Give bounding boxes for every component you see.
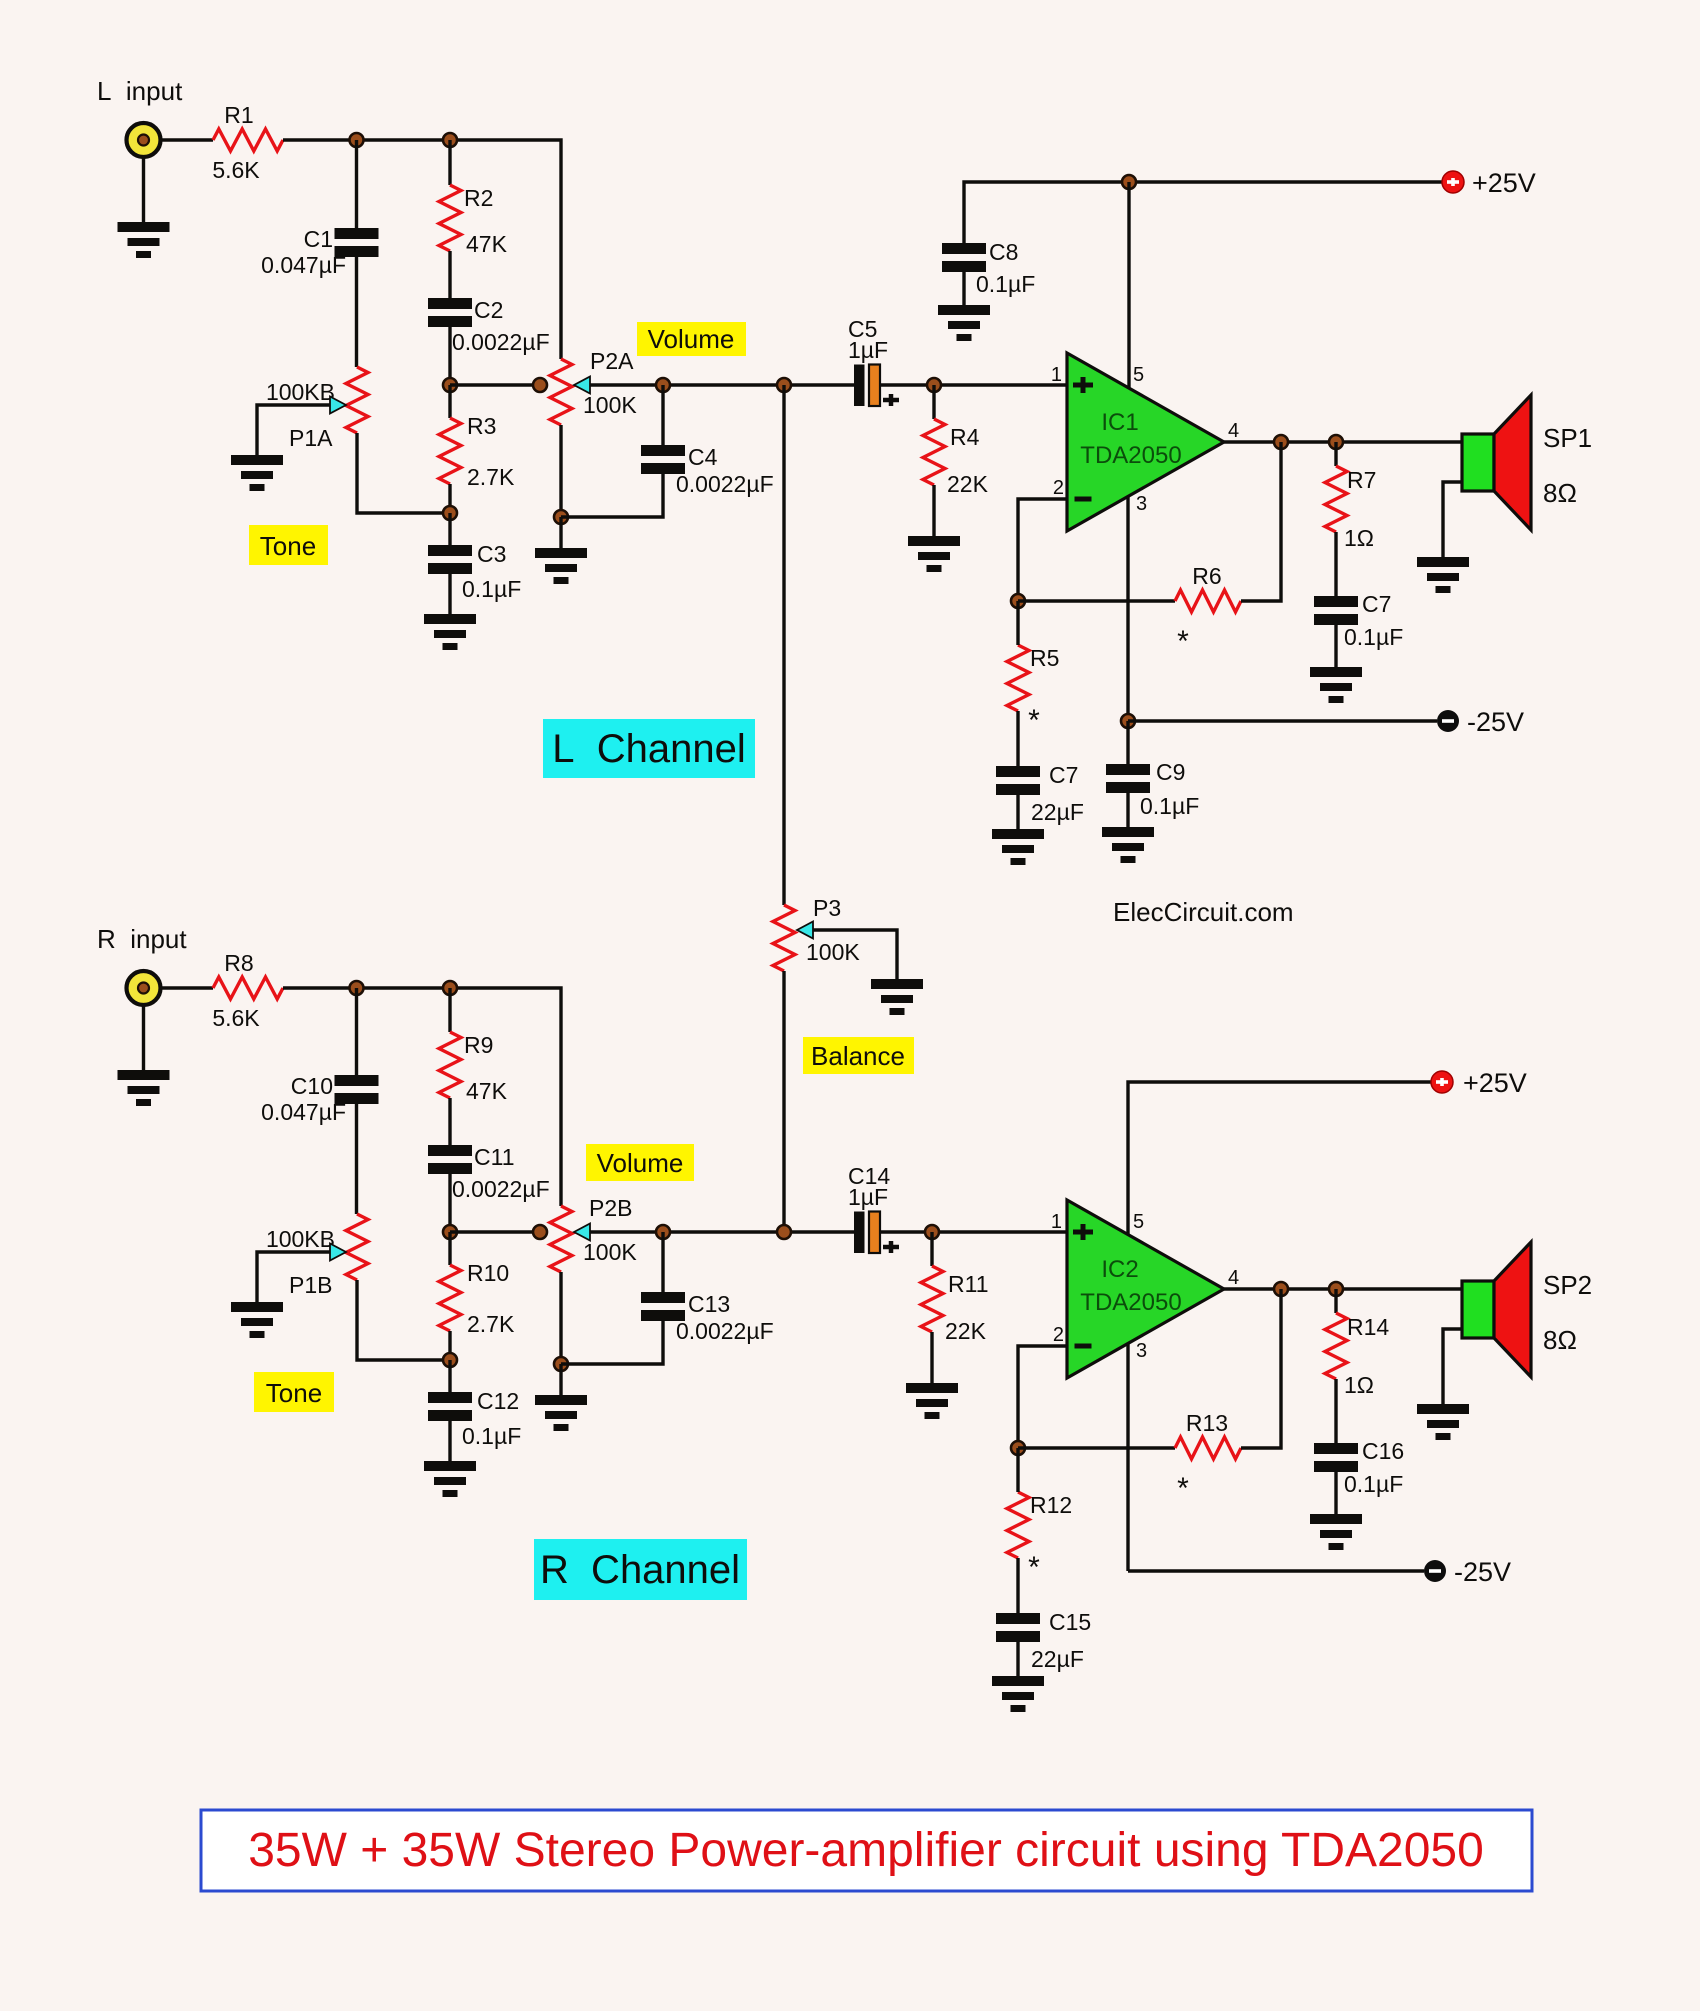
- wire junction to R2: [448, 140, 451, 185]
- node junction balance tap: [777, 378, 791, 392]
- node junction at P2B: [533, 1225, 547, 1239]
- svg-text:0.1µF: 0.1µF: [1344, 624, 1403, 650]
- svg-text:R8: R8: [224, 950, 253, 976]
- capacitor C14 electrolytic: [848, 1163, 899, 1253]
- svg-text:SP1: SP1: [1543, 423, 1592, 453]
- svg-text:3: 3: [1136, 1340, 1147, 1362]
- wire SP2 to ground: [1443, 1329, 1462, 1404]
- node junction on +25V rail: [1122, 175, 1136, 189]
- label Balance: [803, 1037, 914, 1074]
- wire +25V rail R: [1128, 1082, 1431, 1235]
- svg-text:TDA2050: TDA2050: [1080, 442, 1181, 469]
- svg-text:1: 1: [1051, 1211, 1062, 1233]
- ground below SP1: [1417, 557, 1469, 593]
- svg-text:R11: R11: [948, 1271, 989, 1297]
- potentiometer P1B: [266, 1214, 368, 1298]
- svg-text:100K: 100K: [806, 939, 860, 965]
- svg-text:2: 2: [1053, 1324, 1064, 1346]
- capacitor C13: [641, 1291, 774, 1344]
- svg-text:*: *: [1177, 625, 1189, 658]
- svg-text:100K: 100K: [583, 392, 637, 418]
- svg-text:SP2: SP2: [1543, 1270, 1592, 1300]
- capacitor C7 (0.1uF): [1314, 591, 1403, 650]
- wire IC2 output to speaker: [1224, 1287, 1462, 1290]
- wire node to R5: [1016, 601, 1019, 645]
- ground below P2B: [535, 1395, 587, 1431]
- wire pin2 node to R6: [1018, 599, 1175, 602]
- svg-text:22K: 22K: [947, 471, 989, 497]
- svg-text:2: 2: [1053, 477, 1064, 499]
- capacitor C16: [1314, 1438, 1404, 1497]
- wiper arrow P1A: [330, 397, 346, 414]
- op-amp IC2 TDA2050: [1051, 1200, 1239, 1378]
- speaker SP2: [1462, 1242, 1592, 1377]
- wire P3 wiper to ground: [813, 930, 897, 979]
- wire IC1 pin 3: [1126, 496, 1129, 721]
- node tone junction R: [443, 1353, 457, 1367]
- speaker SP1: [1462, 395, 1592, 530]
- svg-text:4: 4: [1228, 1267, 1239, 1289]
- node junction at C4: [656, 378, 670, 392]
- svg-text:Volume: Volume: [597, 1148, 684, 1178]
- resistor R7: [1325, 466, 1376, 551]
- wire junction to R14: [1334, 1289, 1337, 1313]
- resistor R9: [439, 1032, 508, 1104]
- wire P2B bottom to ground: [559, 1364, 562, 1395]
- svg-text:0.0022µF: 0.0022µF: [676, 471, 774, 497]
- svg-text:0.0022µF: 0.0022µF: [452, 1176, 550, 1202]
- potentiometer P2B: [550, 1195, 637, 1272]
- svg-text:*: *: [1028, 1551, 1040, 1584]
- potentiometer P3: [773, 895, 860, 971]
- node P2A bottom junction: [554, 510, 568, 524]
- svg-text:P3: P3: [813, 895, 841, 921]
- wire IC1 pin 2: [1018, 499, 1067, 601]
- svg-text:C10: C10: [291, 1073, 333, 1099]
- RCA jack J2 (R input): [127, 971, 161, 1005]
- wire C9 to ground: [1126, 793, 1129, 827]
- ground below C9: [1102, 827, 1154, 863]
- wire junction to C10: [355, 988, 358, 1075]
- resistor R13: [1175, 1410, 1241, 1505]
- wire P1B wiper to ground: [257, 1252, 330, 1302]
- svg-text:ElecCircuit.com: ElecCircuit.com: [1113, 897, 1294, 927]
- wire R11 to ground: [930, 1332, 933, 1383]
- svg-text:0.0022µF: 0.0022µF: [676, 1318, 774, 1344]
- wire +25V rail L: [964, 182, 1442, 243]
- ground below R11: [906, 1383, 958, 1419]
- wire node to R12: [1016, 1448, 1019, 1492]
- svg-text:R9: R9: [464, 1032, 493, 1058]
- wire P2A wiper to C5: [590, 383, 854, 386]
- capacitor C7 (22uF): [996, 762, 1084, 825]
- terminal +25V L: [1442, 168, 1536, 198]
- svg-text:C15: C15: [1049, 1609, 1091, 1635]
- svg-text:+25V: +25V: [1463, 1068, 1527, 1098]
- wire junction to R11: [930, 1232, 933, 1266]
- capacitor C2: [428, 297, 550, 355]
- svg-text:P1B: P1B: [289, 1272, 332, 1298]
- svg-text:R10: R10: [467, 1260, 509, 1286]
- resistor R2: [439, 185, 508, 257]
- wire jack to R8: [161, 986, 213, 989]
- wire jack to R1: [161, 138, 213, 141]
- svg-text:C13: C13: [688, 1291, 730, 1317]
- svg-text:35W + 35W Stereo Power-amplifi: 35W + 35W Stereo Power-amplifier circuit…: [248, 1824, 1484, 1877]
- svg-text:R5: R5: [1030, 645, 1059, 671]
- svg-text:Volume: Volume: [648, 324, 735, 354]
- wire C7 to ground: [1016, 795, 1019, 829]
- svg-text:C1: C1: [304, 226, 333, 252]
- svg-text:R13: R13: [1186, 1410, 1228, 1436]
- node junction at P2A: [533, 378, 547, 392]
- svg-text:1µF: 1µF: [848, 1184, 888, 1210]
- wire junction to C9: [1126, 721, 1129, 764]
- svg-text:C2: C2: [474, 297, 503, 323]
- svg-text:C12: C12: [477, 1388, 519, 1414]
- wire R7 to C7: [1334, 532, 1337, 596]
- svg-text:100KB: 100KB: [266, 1226, 335, 1252]
- node junction feedback tap: [1274, 435, 1288, 449]
- svg-text:5.6K: 5.6K: [212, 157, 260, 183]
- wire R4 to ground: [932, 485, 935, 536]
- wire tone node to C12: [448, 1360, 451, 1392]
- capacitor C15: [996, 1609, 1091, 1672]
- ground at P3 wiper: [871, 979, 923, 1015]
- svg-text:0.047µF: 0.047µF: [261, 1099, 346, 1125]
- wire R13 to output: [1241, 1289, 1281, 1448]
- node junction R13/R12: [1011, 1441, 1025, 1455]
- wire R2 to C2: [448, 251, 451, 298]
- ground below R4: [908, 536, 960, 572]
- wire junction to P2B: [450, 1230, 540, 1233]
- svg-text:C7: C7: [1049, 762, 1078, 788]
- capacitor C3: [428, 541, 521, 602]
- capacitor C10: [261, 1073, 378, 1125]
- wire R9 to C11: [448, 1098, 451, 1145]
- wire P2B wiper to C14: [590, 1230, 854, 1233]
- wire P1A bottom to tone node: [357, 433, 450, 513]
- wire tone node to C3: [448, 513, 451, 545]
- svg-text:47K: 47K: [466, 1078, 508, 1104]
- wire R12 to C15: [1016, 1558, 1019, 1613]
- wire C13 to P2B bottom junction: [561, 1321, 663, 1364]
- resistor R14: [1325, 1313, 1389, 1398]
- resistor R1: [212, 102, 283, 183]
- svg-text:C8: C8: [989, 239, 1018, 265]
- wire pin2 node to R13: [1018, 1446, 1175, 1449]
- ground below SP2: [1417, 1404, 1469, 1440]
- wire C4 to P2A bottom junction: [561, 474, 663, 517]
- ground below C8: [938, 305, 990, 341]
- node junction -25V rail L: [1121, 714, 1135, 728]
- wire -25V rail L: [1128, 719, 1437, 722]
- wire R3 to tone node: [448, 484, 451, 513]
- svg-text:Balance: Balance: [811, 1041, 905, 1071]
- wire P2B bottom: [559, 1272, 562, 1364]
- svg-text:C3: C3: [477, 541, 506, 567]
- wire C11 to junction: [448, 1174, 451, 1232]
- wire C8 to ground: [962, 272, 965, 305]
- wire SP1 to ground: [1443, 482, 1462, 557]
- wire junction to P2A: [450, 383, 540, 386]
- ground at P1A wiper: [231, 455, 283, 491]
- svg-text:1Ω: 1Ω: [1344, 1372, 1374, 1398]
- svg-text:C4: C4: [688, 444, 718, 470]
- node junction at R11: [925, 1225, 939, 1239]
- resistor R3: [439, 413, 515, 490]
- node junction at R4: [927, 378, 941, 392]
- label Tone L: [249, 525, 328, 565]
- node junction feedback tap R: [1274, 1282, 1288, 1296]
- wiper arrow P3: [797, 922, 813, 939]
- svg-text:8Ω: 8Ω: [1543, 1325, 1577, 1355]
- wire C16 to ground: [1334, 1472, 1337, 1514]
- label ElecCircuit.com: [1113, 897, 1294, 927]
- ground below C3: [424, 614, 476, 650]
- wire P1A wiper to ground: [257, 405, 330, 455]
- node junction at R9 top: [443, 981, 457, 995]
- wire R8 to P2B top: [283, 988, 561, 1206]
- wire jack J2 to ground: [142, 1005, 145, 1070]
- resistor R11: [921, 1266, 989, 1344]
- wire IC1 output to speaker: [1224, 440, 1462, 443]
- ground below C7 0.1uF: [1310, 667, 1362, 703]
- node junction at C13: [656, 1225, 670, 1239]
- wire R6 to output: [1241, 442, 1281, 601]
- svg-text:P1A: P1A: [289, 425, 333, 451]
- op-amp IC1 TDA2050: [1051, 353, 1239, 531]
- svg-text:4: 4: [1228, 420, 1239, 442]
- svg-text:R14: R14: [1347, 1314, 1389, 1340]
- svg-text:-25V: -25V: [1454, 1557, 1511, 1587]
- resistor R6: [1175, 563, 1241, 658]
- wire R14 to C16: [1334, 1379, 1337, 1443]
- svg-text:0.1µF: 0.1µF: [1344, 1471, 1403, 1497]
- capacitor C4: [641, 444, 774, 497]
- svg-text:5: 5: [1133, 364, 1144, 386]
- resistor R12: [1007, 1492, 1072, 1584]
- wire balance tap vertical: [782, 385, 785, 905]
- wire C1 to P1A: [355, 257, 358, 367]
- svg-text:Tone: Tone: [260, 531, 316, 561]
- wire pin 5 supply: [1127, 182, 1130, 388]
- svg-text:C7: C7: [1362, 591, 1391, 617]
- svg-text:100KB: 100KB: [266, 379, 335, 405]
- capacitor C9: [1106, 759, 1199, 819]
- node junction R10 top: [443, 1225, 457, 1239]
- svg-text:+25V: +25V: [1472, 168, 1536, 198]
- wire C12 to ground: [448, 1421, 451, 1461]
- wire junction to R4: [932, 385, 935, 419]
- wire C10 to P1B: [355, 1104, 358, 1214]
- label Volume L: [637, 322, 746, 356]
- wire IC2 pin 3: [1126, 1343, 1129, 1571]
- potentiometer P1A: [266, 367, 368, 451]
- svg-text:22µF: 22µF: [1031, 799, 1084, 825]
- label Volume R: [586, 1144, 694, 1181]
- ground below C15: [992, 1676, 1044, 1712]
- potentiometer P2A: [550, 348, 637, 425]
- svg-text:47K: 47K: [466, 231, 508, 257]
- wire R5 to C7: [1016, 711, 1019, 766]
- capacitor C12: [428, 1388, 521, 1449]
- wiper arrow P1B: [330, 1244, 346, 1261]
- svg-text:-25V: -25V: [1467, 707, 1524, 737]
- svg-text:P2B: P2B: [589, 1195, 632, 1221]
- node junction at R2 top: [443, 133, 457, 147]
- svg-text:C11: C11: [474, 1144, 515, 1170]
- svg-text:R2: R2: [464, 185, 493, 211]
- svg-text:2.7K: 2.7K: [467, 1311, 515, 1337]
- svg-text:R7: R7: [1347, 467, 1376, 493]
- wire junction to R7: [1334, 442, 1337, 466]
- wire P1B bottom to tone node: [357, 1280, 450, 1360]
- label R Channel: [534, 1539, 747, 1600]
- capacitor C11: [428, 1144, 550, 1202]
- svg-text:TDA2050: TDA2050: [1080, 1289, 1181, 1316]
- wire IC2 pin 2: [1018, 1346, 1067, 1448]
- title box: [201, 1810, 1532, 1891]
- svg-text:5.6K: 5.6K: [212, 1005, 260, 1031]
- wire junction to R9: [448, 988, 451, 1032]
- wire junction to R10: [448, 1232, 451, 1265]
- node R input label: [97, 924, 187, 954]
- terminal +25V R: [1431, 1068, 1527, 1098]
- svg-text:P2A: P2A: [590, 348, 634, 374]
- node junction at R7: [1329, 435, 1343, 449]
- ground below P2A: [535, 548, 587, 584]
- svg-text:0.1µF: 0.1µF: [462, 1423, 521, 1449]
- ground at P1B wiper: [231, 1302, 283, 1338]
- node junction balance bottom: [777, 1225, 791, 1239]
- node junction at R14: [1329, 1282, 1343, 1296]
- svg-text:*: *: [1177, 1472, 1189, 1505]
- wire junction to C1: [355, 140, 358, 228]
- wire junction to C4: [661, 385, 664, 445]
- svg-text:IC1: IC1: [1101, 409, 1138, 436]
- wire R1 to P2A top: [283, 140, 561, 359]
- svg-text:0.1µF: 0.1µF: [462, 576, 521, 602]
- wiper arrow P2B: [574, 1224, 590, 1241]
- label Tone R: [254, 1372, 334, 1412]
- node junction R3 top: [443, 378, 457, 392]
- capacitor C1: [261, 226, 378, 278]
- svg-text:100K: 100K: [583, 1239, 637, 1265]
- wire junction to R3: [448, 385, 451, 418]
- ground below C12: [424, 1461, 476, 1497]
- node junction R6/R5: [1011, 594, 1025, 608]
- svg-text:R Channel: R Channel: [540, 1548, 740, 1592]
- svg-text:R12: R12: [1030, 1492, 1072, 1518]
- svg-text:0.1µF: 0.1µF: [976, 271, 1035, 297]
- wire C14 to IC2 pin 1: [880, 1230, 1067, 1233]
- wire jack to ground: [142, 157, 145, 222]
- svg-text:1: 1: [1051, 364, 1062, 386]
- ground below C7 22uF: [992, 829, 1044, 865]
- terminal -25V R: [1424, 1557, 1511, 1587]
- node tone junction: [443, 506, 457, 520]
- node junction at C1 top: [350, 133, 364, 147]
- capacitor C5 electrolytic: [848, 316, 899, 406]
- svg-text:R3: R3: [467, 413, 496, 439]
- node P2B bottom junction: [554, 1357, 568, 1371]
- wire C3 to ground: [448, 574, 451, 614]
- svg-text:2.7K: 2.7K: [467, 464, 515, 490]
- svg-text:*: *: [1028, 704, 1040, 737]
- capacitor C8: [942, 239, 1035, 297]
- wire P3 to R signal line: [782, 971, 785, 1232]
- svg-text:22K: 22K: [945, 1318, 987, 1344]
- svg-text:1µF: 1µF: [848, 337, 888, 363]
- svg-text:L input: L input: [97, 76, 183, 106]
- svg-text:8Ω: 8Ω: [1543, 478, 1577, 508]
- wire C5 to IC1 pin 1: [880, 383, 1067, 386]
- resistor R8: [212, 950, 283, 1031]
- svg-text:5: 5: [1133, 1211, 1144, 1233]
- ground below jack J2: [118, 1070, 170, 1106]
- svg-text:R6: R6: [1192, 563, 1221, 589]
- svg-text:3: 3: [1136, 493, 1147, 515]
- svg-text:R input: R input: [97, 924, 187, 954]
- RCA jack J1 (L input): [127, 123, 161, 157]
- svg-text:R1: R1: [224, 102, 253, 128]
- wire P2A bottom: [559, 425, 562, 517]
- resistor R4: [923, 419, 989, 497]
- svg-text:22µF: 22µF: [1031, 1646, 1084, 1672]
- svg-text:Tone: Tone: [266, 1378, 322, 1408]
- node L input label: [97, 76, 183, 106]
- label L Channel: [543, 719, 755, 778]
- svg-text:C9: C9: [1156, 759, 1185, 785]
- wire C2 to junction: [448, 327, 451, 385]
- svg-text:IC2: IC2: [1101, 1256, 1138, 1283]
- svg-text:0.1µF: 0.1µF: [1140, 793, 1199, 819]
- resistor R10: [439, 1260, 515, 1337]
- node junction at C10 top: [350, 981, 364, 995]
- svg-text:0.0022µF: 0.0022µF: [452, 329, 550, 355]
- ground below C16: [1310, 1514, 1362, 1550]
- wire C15 to ground: [1016, 1642, 1019, 1676]
- svg-text:1Ω: 1Ω: [1344, 525, 1374, 551]
- wire -25V rail R: [1128, 1569, 1424, 1572]
- wire R10 to tone node: [448, 1331, 451, 1360]
- wire junction to C13: [661, 1232, 664, 1292]
- svg-text:L Channel: L Channel: [552, 727, 745, 771]
- resistor R5: [1007, 645, 1059, 737]
- terminal -25V L: [1437, 707, 1524, 737]
- svg-text:C16: C16: [1362, 1438, 1404, 1464]
- wire P2A bottom to ground: [559, 517, 562, 548]
- svg-text:R4: R4: [950, 424, 980, 450]
- wire C7 to ground: [1334, 625, 1337, 667]
- wiper arrow P2A: [574, 377, 590, 394]
- svg-text:0.047µF: 0.047µF: [261, 252, 346, 278]
- ground below jack J1: [118, 222, 170, 258]
